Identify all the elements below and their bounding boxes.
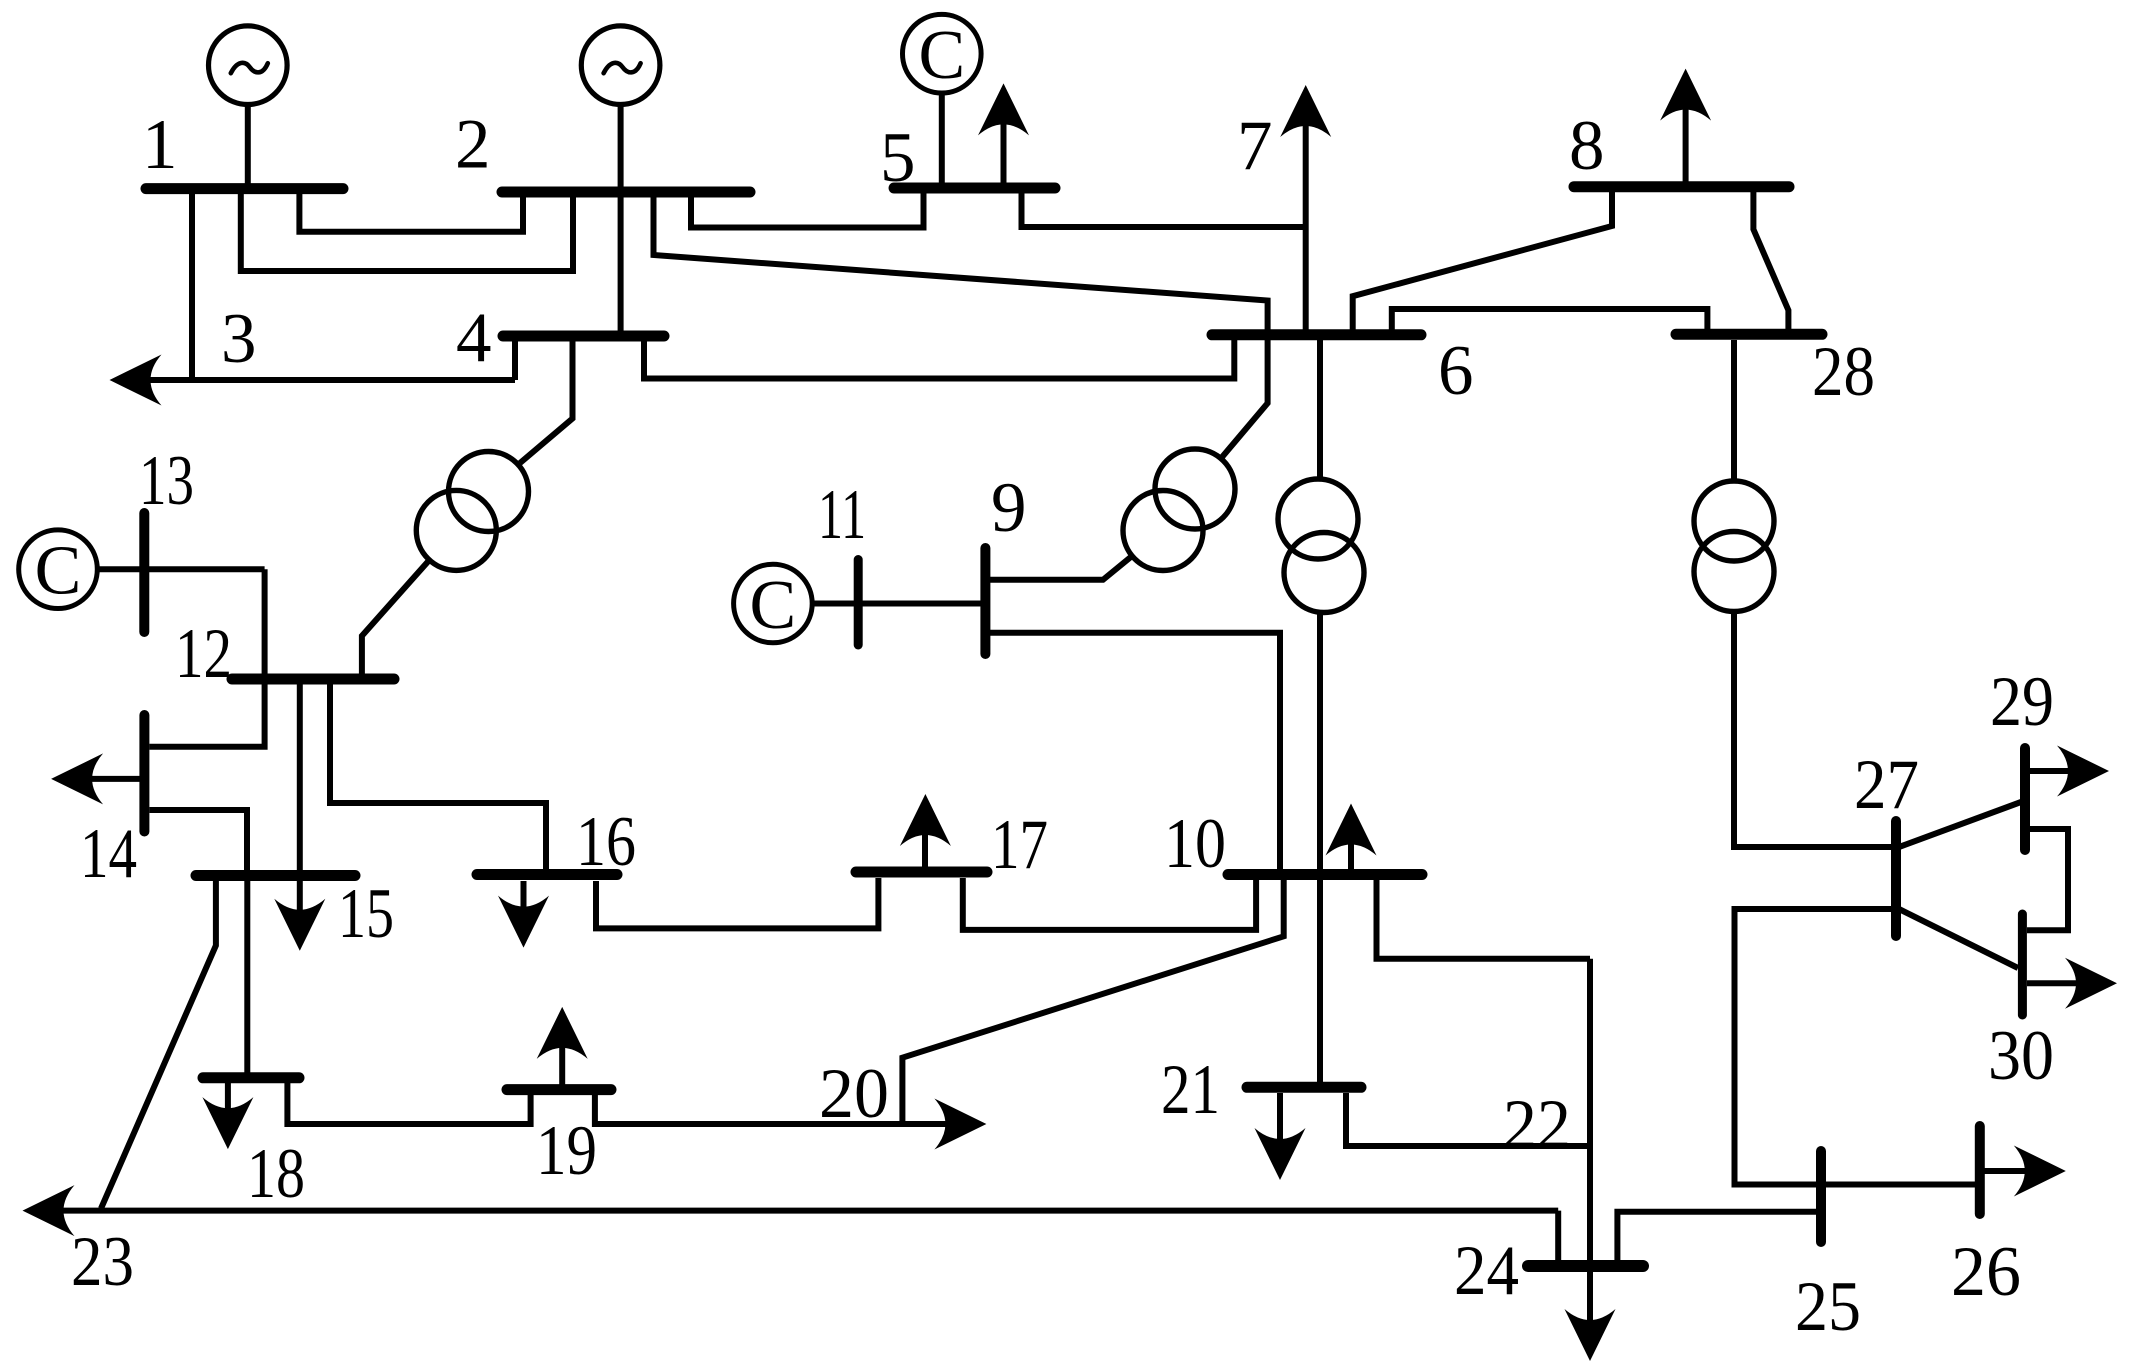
wire load 17 shaft: [922, 834, 928, 872]
load arrow bus 24: [1565, 1309, 1616, 1361]
svg-text:12: 12: [175, 615, 232, 693]
wire line 8-28: [1753, 192, 1788, 329]
load arrow bus 21: [1255, 1128, 1306, 1180]
svg-text:28: 28: [1812, 333, 1875, 411]
svg-text:C: C: [918, 17, 965, 94]
bus 26: [1975, 1126, 1985, 1214]
wire line 2-6: [654, 197, 1268, 330]
load arrow bus 15: [274, 899, 325, 951]
condenser C at bus 5: [903, 14, 982, 94]
bus 2: [502, 187, 750, 198]
load arrow bus 16: [498, 896, 549, 948]
wire line 27-30: [1899, 909, 2018, 968]
wire line 23-24: [61, 1211, 1558, 1261]
wire line 27-29: [1899, 802, 2021, 847]
transformer 28-27: [1694, 481, 1774, 612]
wire line 12-15: [297, 684, 303, 870]
wire load 14 shaft: [90, 776, 140, 782]
svg-text:4: 4: [456, 299, 492, 377]
load arrow bus 17: [900, 794, 951, 846]
wire load 15 shaft: [297, 881, 303, 912]
svg-text:11: 11: [818, 476, 866, 554]
wire line 15-23: [101, 881, 216, 1209]
svg-text:29: 29: [1990, 663, 2054, 741]
svg-text:26: 26: [1951, 1233, 2021, 1311]
wire load 19 shaft: [559, 1047, 565, 1085]
wire G2 stem: [618, 105, 624, 193]
wire line 10-20: [902, 880, 1283, 1121]
wire transformer 6-10 to bus 10 and line 10-21: [1317, 613, 1323, 1083]
svg-text:19: 19: [536, 1112, 597, 1190]
svg-text:18: 18: [247, 1135, 305, 1213]
svg-text:22: 22: [1503, 1086, 1571, 1164]
load arrow bus 7: [1280, 85, 1331, 137]
wire line 22-24 with bus 22 node: [1587, 959, 1593, 1261]
wire line 1-2 a: [299, 189, 523, 232]
bus 29: [2020, 748, 2030, 850]
bus 25: [1816, 1151, 1826, 1242]
svg-text:30: 30: [1988, 1017, 2054, 1095]
wire line 25-27: [1735, 909, 1892, 1185]
wire load 5 shaft: [1001, 123, 1007, 188]
wire line 2-4: [618, 192, 624, 331]
svg-text:10: 10: [1164, 805, 1226, 883]
wire load 29 shaft: [2030, 768, 2071, 774]
load arrow bus 14: [51, 753, 103, 804]
bus 4: [503, 331, 664, 342]
svg-text:25: 25: [1795, 1268, 1861, 1346]
wire line 6-8: [1353, 192, 1612, 330]
bus 19: [507, 1084, 611, 1095]
wire transformer to bus 12: [362, 561, 429, 674]
bus 5: [894, 183, 1055, 194]
generator G2 at bus 2: [581, 26, 660, 105]
wire line 17-10: [963, 878, 1256, 930]
svg-text:8: 8: [1569, 107, 1605, 185]
bus 28: [1676, 329, 1822, 340]
wire line 13-12: [98, 569, 265, 674]
wire line 12-16: [330, 684, 546, 869]
svg-text:27: 27: [1854, 746, 1919, 824]
svg-text:3: 3: [221, 300, 257, 378]
wire line 3-4: [192, 341, 515, 380]
wire line 24-25: [1617, 1212, 1816, 1261]
bus 17: [856, 867, 987, 878]
bus 18: [203, 1072, 299, 1083]
wire line 18-19: [287, 1083, 530, 1124]
wire load 21 shaft: [1277, 1093, 1283, 1141]
transformer 6-9: [1123, 449, 1235, 571]
wire load 30 shaft: [2027, 980, 2078, 986]
wire line 6-28: [1392, 309, 1708, 330]
condenser C at bus 13: [19, 530, 98, 610]
wire line 5-7: [1022, 193, 1306, 227]
wire line 4-6: [644, 340, 1234, 379]
wire line 1-2 b: [241, 189, 573, 271]
bus 24: [1528, 1260, 1643, 1272]
wire bus6 to transformer 6-10: [1317, 340, 1323, 479]
load arrow bus 3: [110, 355, 162, 406]
wire line 15-18: [244, 881, 250, 1073]
wire line 14-15: [150, 810, 248, 870]
wire transformer 6-9 to bus 6: [1221, 330, 1268, 458]
load arrow bus 10: [1326, 804, 1377, 856]
load arrow bus 23: [23, 1185, 75, 1236]
svg-text:21: 21: [1161, 1051, 1220, 1129]
svg-text:20: 20: [819, 1055, 889, 1133]
wire bus28 to transformer: [1731, 340, 1737, 482]
svg-text:9: 9: [991, 469, 1027, 547]
wire line 2-5: [691, 188, 924, 228]
bus 9: [980, 548, 990, 654]
bus 6: [1212, 329, 1421, 340]
load arrow bus 20: [934, 1099, 986, 1150]
bus 14: [139, 715, 149, 832]
wire load 26 shaft: [1985, 1168, 2027, 1174]
wire load 8 shaft: [1683, 108, 1689, 187]
svg-text:17: 17: [991, 806, 1048, 884]
wire line 1-3: [189, 189, 195, 380]
svg-text:23: 23: [71, 1223, 134, 1301]
wire C5 stem: [939, 93, 945, 188]
bus 1: [146, 183, 343, 194]
load arrow bus 30: [2065, 958, 2117, 1009]
svg-text:C: C: [750, 567, 797, 644]
svg-text:15: 15: [338, 875, 394, 953]
wire line 19-20 with bus 20 node: [595, 1095, 947, 1124]
condenser C at bus 11: [734, 564, 813, 644]
transformer 6-10: [1278, 479, 1364, 613]
wire line 11-9: [812, 601, 981, 607]
wire load 10 shaft: [1348, 842, 1354, 869]
wire bus9 to transformer 6-9: [990, 556, 1132, 580]
wire transformer to bus 27: [1734, 611, 1891, 847]
svg-text:2: 2: [455, 106, 491, 184]
svg-text:6: 6: [1438, 332, 1474, 410]
load arrow bus 19: [537, 1007, 588, 1059]
svg-text:1: 1: [142, 106, 178, 184]
wire line 9-10: [990, 633, 1280, 869]
wire load 3 stub: [150, 377, 192, 383]
wire line 7-6 with bus 7 node: [1303, 124, 1309, 330]
load arrow bus 26: [2014, 1146, 2066, 1197]
svg-text:14: 14: [80, 815, 137, 893]
wire line 12-14: [150, 684, 265, 747]
wire load 24 shaft: [1587, 1272, 1593, 1322]
generator G1 at bus 1: [209, 26, 288, 105]
load arrow bus 18: [202, 1097, 253, 1149]
bus 12: [232, 674, 394, 685]
wire line 21-22: [1346, 1093, 1590, 1146]
load arrow bus 5: [978, 83, 1029, 135]
wire bus4 to transformer: [520, 341, 573, 463]
wire line 29-30: [2027, 829, 2068, 930]
svg-text:24: 24: [1454, 1232, 1519, 1310]
bus 16: [477, 869, 617, 880]
svg-text:C: C: [35, 533, 82, 610]
svg-text:5: 5: [880, 119, 916, 197]
transformer 4-12: [416, 452, 528, 571]
bus 21: [1247, 1082, 1361, 1093]
wire G1 stem: [245, 105, 251, 190]
bus 15: [196, 870, 355, 881]
bus 10: [1228, 869, 1422, 880]
load arrow bus 29: [2057, 746, 2109, 797]
bus 27: [1891, 821, 1901, 936]
wire line 16-17: [596, 878, 878, 928]
wire load 16 shaft: [521, 881, 527, 909]
wire line 25-26: [1826, 1182, 1975, 1188]
wire load 18 shaft: [225, 1083, 231, 1110]
bus 13: [139, 513, 149, 632]
bus 8: [1574, 181, 1789, 192]
svg-text:13: 13: [139, 442, 194, 520]
wire line 10-22: [1377, 880, 1591, 959]
svg-text:7: 7: [1237, 107, 1273, 185]
load arrow bus 8: [1660, 69, 1711, 121]
svg-text:16: 16: [576, 803, 636, 881]
bus 11: [854, 560, 863, 646]
bus 30: [2018, 914, 2027, 1015]
